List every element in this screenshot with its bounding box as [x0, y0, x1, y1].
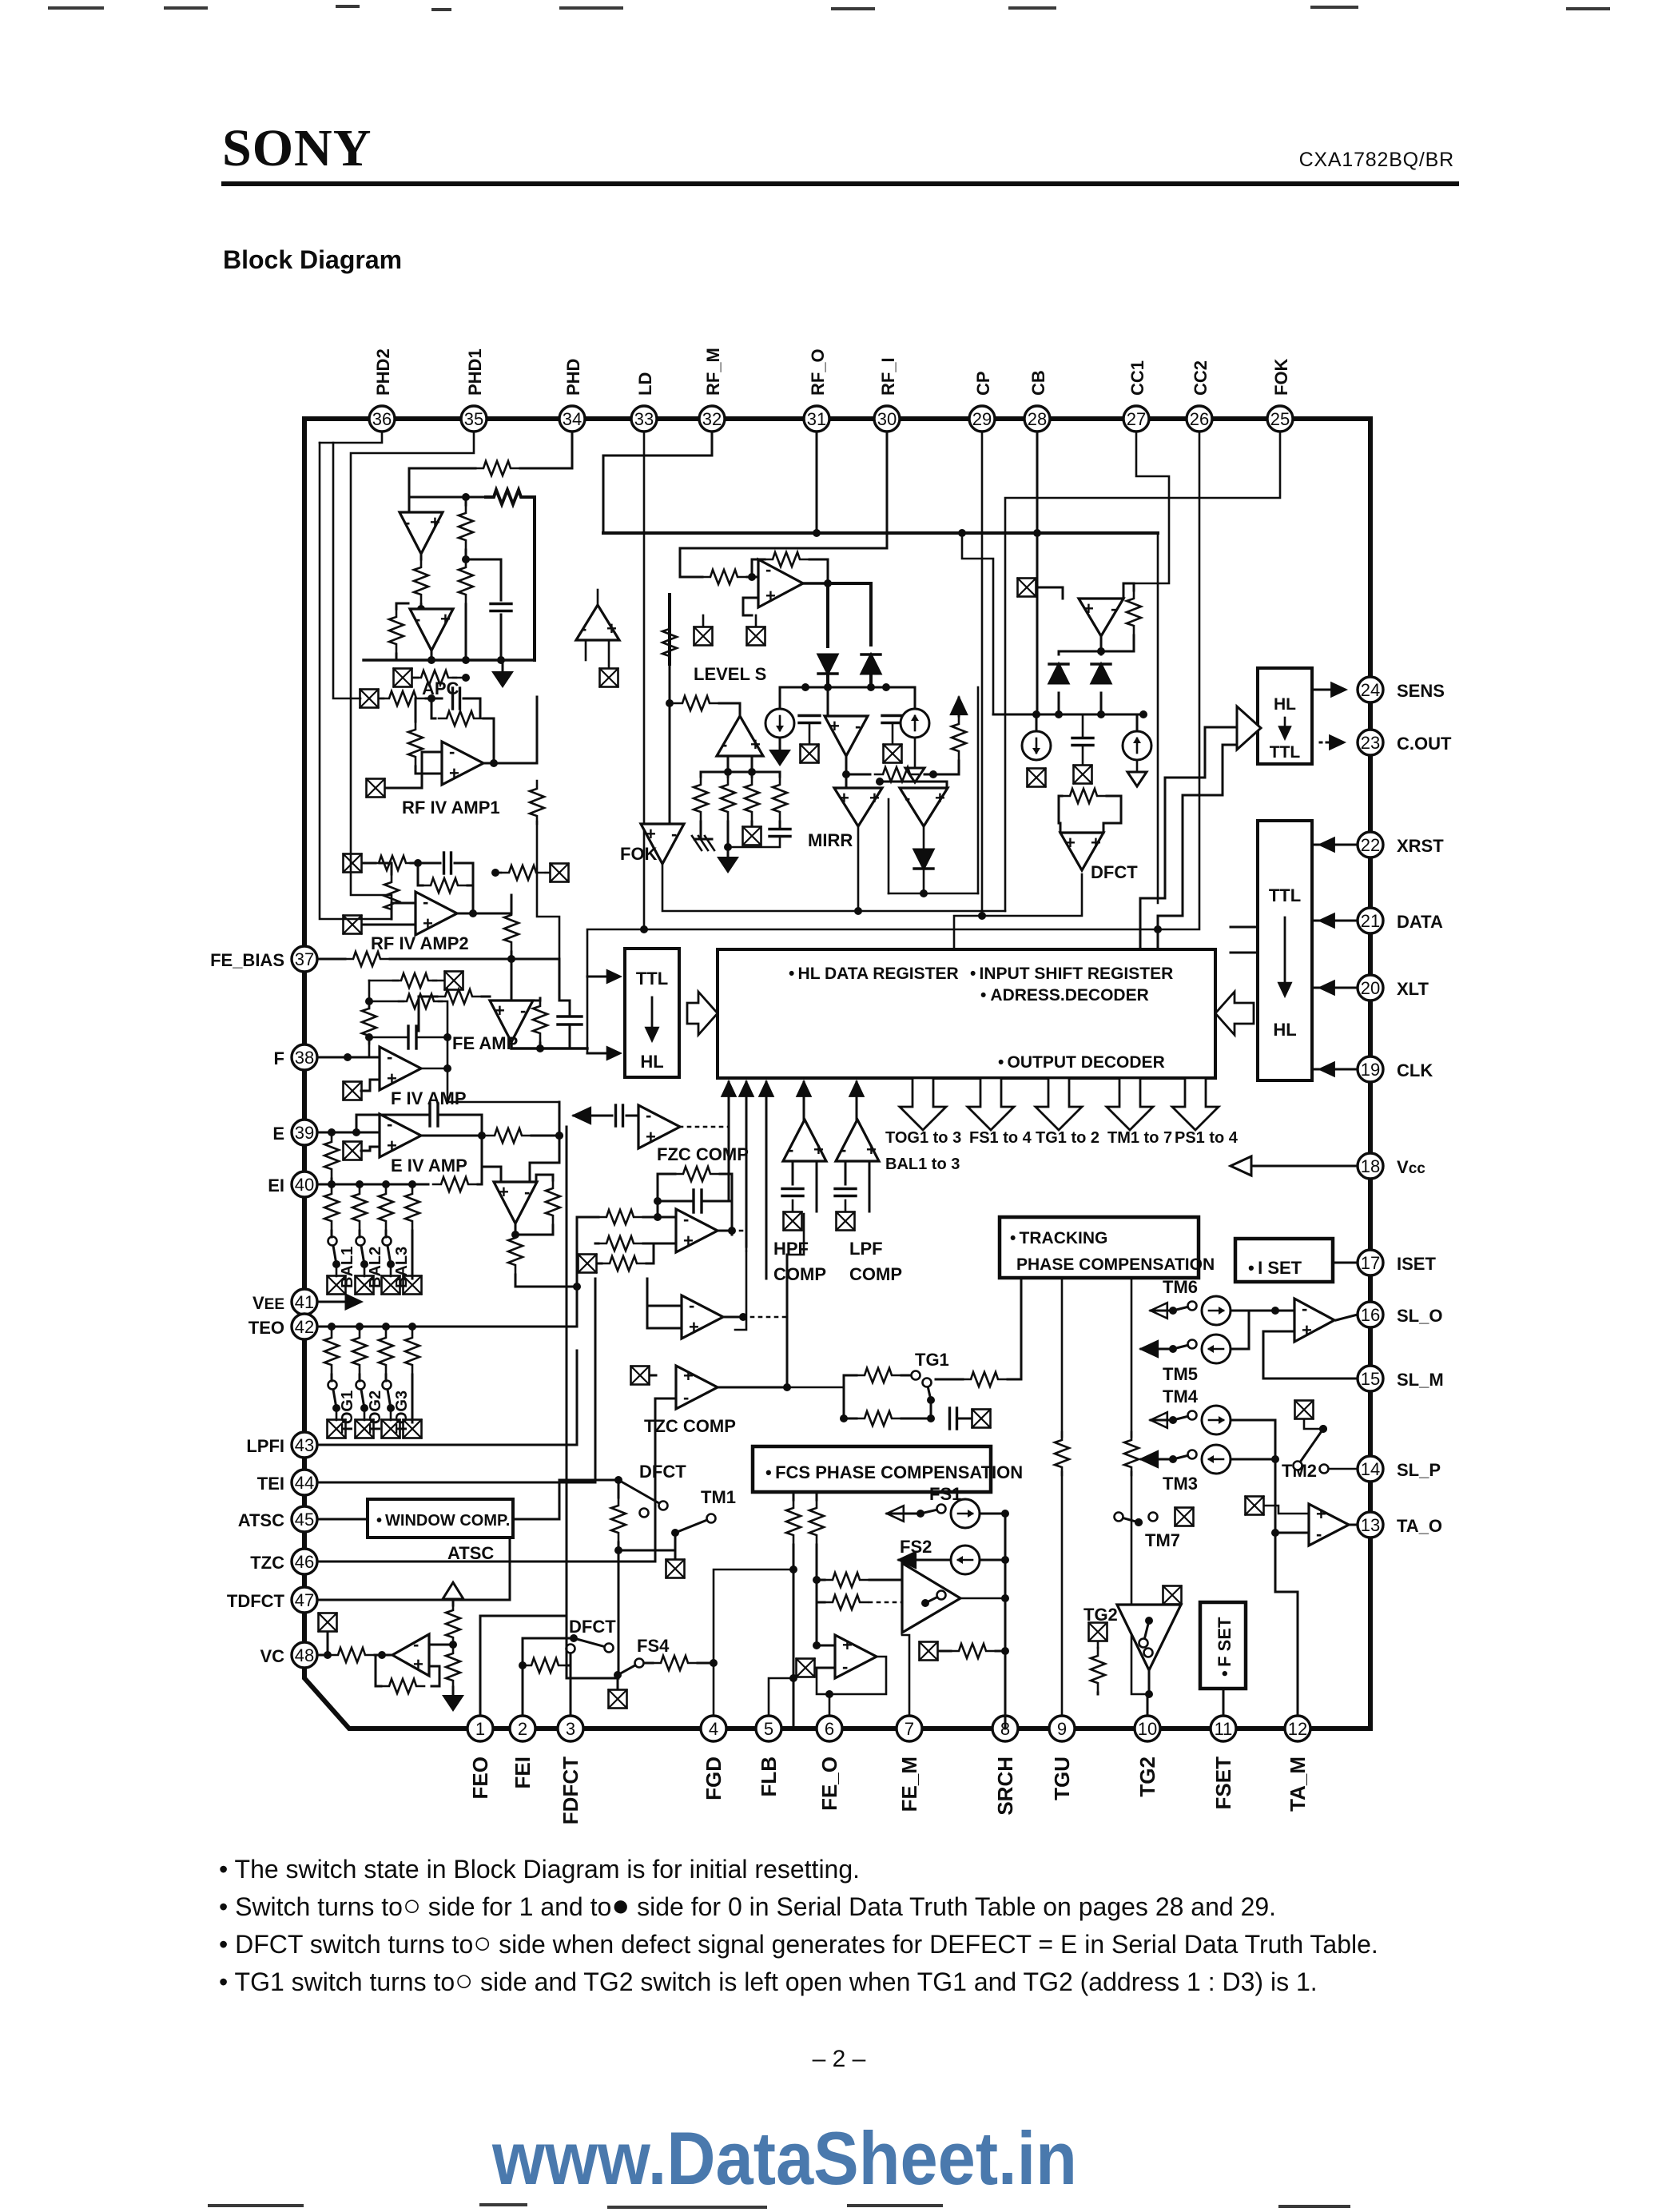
wire ta in [1275, 1532, 1309, 1534]
wire pin37 FE_BIAS [317, 958, 345, 961]
wire [597, 590, 599, 605]
switch TOG3 [383, 1381, 396, 1413]
resistor bank [694, 777, 708, 820]
test pad [319, 1613, 337, 1632]
wire [680, 576, 702, 579]
capacitor [835, 1189, 856, 1196]
svg-text:SONY: SONY [222, 119, 372, 177]
svg-text:TM5: TM5 [1163, 1364, 1198, 1384]
comparator TG2 triangle [1117, 1605, 1181, 1670]
svg-text:BAL1 to 3: BAL1 to 3 [885, 1156, 960, 1173]
control line into decoder [765, 1082, 768, 1279]
svg-text:-: - [855, 716, 861, 736]
op-amp TA driver [1309, 1504, 1349, 1546]
svg-text:28: 28 [1028, 409, 1047, 429]
svg-text:+: + [683, 1366, 694, 1386]
wire FS2 out [960, 1597, 1005, 1600]
svg-text:42: 42 [295, 1317, 314, 1337]
svg-text:VC: VC [260, 1646, 284, 1666]
svg-text:www.DataSheet.in: www.DataSheet.in [491, 2116, 1077, 2200]
wire trk left [1020, 1278, 1023, 1379]
wire [465, 497, 467, 505]
wire [809, 723, 811, 743]
wire pin48 [317, 1654, 330, 1657]
svg-text:-: - [581, 619, 586, 639]
wire pin14 TM2 [1330, 1468, 1358, 1470]
svg-text:FS2: FS2 [900, 1537, 932, 1557]
svg-text:RF_M: RF_M [703, 348, 723, 396]
svg-text:33: 33 [634, 409, 654, 429]
test pad [837, 1212, 855, 1231]
wire [511, 959, 513, 1001]
wire pin42 TEO [317, 1326, 428, 1328]
test pad [394, 669, 412, 687]
wire [647, 1305, 682, 1307]
wire DFCT out [954, 874, 1082, 949]
Vcc symbol [443, 1582, 463, 1599]
op-amp FE AMP [490, 1001, 533, 1042]
switch FS4 [614, 1659, 644, 1680]
wire FE AMP out [511, 1042, 587, 1048]
svg-text:-: - [646, 1105, 651, 1125]
resistor [413, 670, 456, 685]
switch TOG2 [356, 1381, 369, 1413]
svg-text:-: - [683, 1387, 689, 1407]
resistor [533, 998, 547, 1041]
wire [411, 862, 418, 865]
op-amp MIRR comparator [825, 716, 868, 756]
pin 11 (FSET) [1211, 1716, 1236, 1741]
diode [1091, 664, 1111, 683]
main bus [603, 531, 1158, 535]
pin 6 (FE_O) [817, 1716, 842, 1741]
wire TEO to TE AMP [428, 1276, 577, 1327]
svg-text:– 2 –: – 2 – [813, 2046, 866, 2072]
svg-text:SL_P: SL_P [1397, 1460, 1441, 1480]
test pad [344, 1142, 362, 1160]
svg-text:48: 48 [295, 1645, 314, 1665]
wire [1100, 651, 1103, 654]
wire [539, 998, 542, 1001]
resistor [486, 490, 529, 504]
svg-text:TG1: TG1 [915, 1350, 949, 1370]
test pad [360, 690, 379, 708]
wire [452, 1644, 455, 1647]
control line into decoder [746, 1082, 748, 1247]
wire pin32 drop [603, 432, 712, 533]
wire [1151, 1310, 1168, 1312]
svg-text:XLT: XLT [1397, 979, 1429, 999]
wire [1157, 533, 1159, 903]
svg-text:3: 3 [566, 1719, 575, 1739]
pin 25 (FOK) [1267, 406, 1293, 432]
wire F out [421, 1068, 447, 1070]
capacitor [694, 1190, 702, 1212]
svg-text:44: 44 [295, 1473, 314, 1493]
U11 side stubs [1231, 926, 1258, 929]
wire fb [429, 1666, 439, 1686]
capacitor [769, 829, 790, 837]
svg-text:E IV AMP: E IV AMP [391, 1156, 467, 1176]
svg-text:+: + [869, 788, 880, 808]
resistor [875, 767, 918, 782]
resistor [1055, 1432, 1069, 1475]
resistor TG1b [857, 1411, 900, 1426]
test pad [1295, 1401, 1314, 1419]
svg-text:+: + [646, 1127, 656, 1147]
wire [426, 698, 442, 700]
svg-text:37: 37 [295, 949, 314, 969]
svg-text:40: 40 [295, 1175, 314, 1195]
wire [327, 1632, 329, 1655]
svg-text:HL: HL [1273, 1020, 1296, 1040]
wire [933, 761, 959, 774]
pin 4 (FGD) [701, 1716, 726, 1741]
wire [1036, 714, 1038, 731]
wire legs [792, 1161, 794, 1184]
wire [1058, 693, 1060, 714]
wire [650, 1375, 656, 1377]
resistor feedback [439, 711, 482, 726]
pin 26 (CC2) [1187, 406, 1212, 432]
capacitor F [408, 1026, 416, 1048]
wire [478, 1160, 482, 1184]
wire [420, 554, 423, 559]
resistor [702, 570, 746, 584]
pin 39 (E) [292, 1120, 317, 1145]
resistor [602, 1256, 645, 1271]
wire loop [658, 1174, 675, 1215]
control line into decoder [856, 1082, 858, 1124]
resistor TE fb [546, 1180, 560, 1223]
pin 45 (ATSC) [292, 1506, 317, 1532]
test pad [609, 1690, 627, 1709]
wire [644, 1662, 653, 1665]
wire pin21 DATA into U11 [1312, 920, 1358, 922]
svg-text:30: 30 [877, 409, 897, 429]
pin 23 (C.OUT) [1358, 730, 1383, 755]
svg-text:-: - [1302, 1299, 1307, 1319]
svg-text:CLK: CLK [1397, 1060, 1433, 1080]
svg-text:5: 5 [764, 1719, 773, 1739]
wire [392, 903, 415, 919]
wire [962, 533, 993, 714]
svg-text:PHASE COMPENSATION: PHASE COMPENSATION [1016, 1255, 1215, 1274]
wire [1231, 1419, 1275, 1422]
op-amp A2 [410, 609, 453, 650]
bus arrow U9 to U10 [687, 992, 718, 1035]
svg-text:RF IV AMP2: RF IV AMP2 [371, 933, 469, 953]
svg-text:FE_O: FE_O [817, 1756, 841, 1811]
svg-text:26: 26 [1190, 409, 1209, 429]
wire pin1 column [480, 1616, 567, 1716]
svg-text:+: + [387, 1068, 397, 1088]
wire [857, 828, 860, 911]
current source [901, 709, 929, 738]
wire pin27 drop [1123, 432, 1169, 599]
svg-text:+: + [440, 609, 451, 629]
current source [1202, 1406, 1231, 1434]
wire pin39 E [317, 1132, 380, 1134]
diode [1049, 664, 1068, 683]
svg-text:PHD: PHD [563, 359, 583, 396]
wire [536, 1175, 553, 1182]
current source FS2 [951, 1546, 980, 1574]
wire legs [727, 756, 730, 772]
svg-text:27: 27 [1127, 409, 1146, 429]
svg-text:• HL DATA REGISTER: • HL DATA REGISTER [789, 965, 959, 983]
svg-text:FSET: FSET [1211, 1756, 1235, 1810]
wire [1097, 1693, 1099, 1694]
wire [669, 703, 671, 824]
svg-text:22: 22 [1361, 835, 1380, 855]
arrow stub [587, 1052, 614, 1055]
svg-text:FS4: FS4 [637, 1636, 670, 1656]
capacitor [782, 1189, 803, 1196]
wire [368, 1037, 371, 1057]
block F SET [1200, 1602, 1246, 1689]
wire [747, 576, 758, 579]
op-amp laser monitor [576, 605, 619, 640]
wire [531, 497, 535, 660]
resistor [508, 1230, 523, 1273]
wire [452, 1687, 455, 1695]
wire [1151, 1419, 1168, 1422]
svg-text:+: + [842, 1635, 853, 1655]
svg-text:10: 10 [1138, 1719, 1157, 1739]
svg-text:+: + [765, 586, 776, 606]
svg-text:4: 4 [709, 1719, 718, 1739]
svg-text:43: 43 [295, 1435, 314, 1455]
svg-text:FOK: FOK [620, 844, 658, 864]
pin 35 (PHD1) [461, 406, 487, 432]
svg-text:TM7: TM7 [1145, 1530, 1180, 1550]
pin 44 (TEI) [292, 1470, 317, 1495]
current source [1022, 731, 1051, 760]
wire pin7 column [902, 1635, 909, 1716]
svg-text:+: + [750, 734, 761, 754]
test pad [631, 1367, 650, 1385]
svg-text:11: 11 [1215, 1719, 1233, 1739]
wire [1141, 1458, 1168, 1461]
capacitor [430, 1104, 438, 1126]
svg-text:6: 6 [825, 1719, 834, 1739]
svg-text:1: 1 [475, 1719, 485, 1739]
svg-text:• TG1 switch turns to○ side a: • TG1 switch turns to○ side and TG2 swit… [219, 1964, 1318, 1998]
decoder output bus PS1 to 4 [1172, 1078, 1219, 1130]
wire pin29 drop [981, 432, 984, 916]
test pad [344, 1082, 362, 1100]
resistor [825, 1595, 868, 1609]
resistor [433, 1177, 476, 1192]
mute arrow [574, 1108, 590, 1124]
capacitor [491, 604, 511, 611]
wire [980, 1559, 1005, 1562]
pin 19 (CLK) [1358, 1056, 1383, 1082]
wire [452, 1599, 455, 1605]
switch TM4 [1169, 1411, 1197, 1425]
svg-text:13: 13 [1361, 1515, 1380, 1535]
svg-text:PHD2: PHD2 [373, 348, 393, 396]
resistor [786, 1500, 801, 1543]
svg-text:39: 39 [295, 1123, 314, 1143]
wire E out [421, 1135, 482, 1137]
wire [845, 774, 848, 788]
svg-text:38: 38 [295, 1048, 314, 1068]
svg-text:• ADRESS.DECODER: • ADRESS.DECODER [980, 986, 1149, 1005]
resistor [362, 1001, 376, 1044]
wire [380, 863, 392, 874]
pin 14 (SL_P) [1358, 1456, 1383, 1482]
svg-text:-: - [387, 1047, 392, 1067]
svg-text:+: + [1083, 599, 1094, 619]
wire [1059, 796, 1060, 833]
pin 18 (V<tspan font-size="19">cc</tspan>) [1358, 1153, 1383, 1179]
svg-text:+: + [1316, 1504, 1326, 1524]
switch TM6 [1169, 1302, 1197, 1315]
ground arrow [442, 1695, 464, 1712]
wire [511, 895, 513, 907]
wire [567, 1550, 618, 1678]
pin 41 (V<tspan font-size="19">EE</tspan>) [292, 1289, 317, 1315]
mute arrow [1141, 1341, 1158, 1357]
wire pin4 column [714, 1569, 793, 1716]
wire FSET box to pin11 [1223, 1689, 1225, 1716]
svg-text:COMP: COMP [773, 1264, 826, 1284]
op-amp TE AMP [494, 1182, 537, 1223]
resistor [324, 1134, 339, 1177]
current source [765, 709, 794, 738]
wire [419, 997, 437, 1031]
svg-text:FZC COMP: FZC COMP [657, 1144, 749, 1164]
wire legs [845, 1161, 847, 1184]
svg-text:LPFI: LPFI [246, 1436, 284, 1456]
svg-text:• F SET: • F SET [1215, 1617, 1235, 1677]
capacitor [616, 1105, 623, 1126]
block TRACKING PHASE COMPENSATION [1000, 1217, 1199, 1278]
wire [577, 1216, 598, 1219]
wire [817, 1558, 835, 1645]
test pad [445, 972, 463, 990]
Vcc distribution arrow at pin18 [1251, 1165, 1358, 1168]
svg-text:ATSC: ATSC [447, 1543, 494, 1563]
svg-text:TDFCT: TDFCT [227, 1591, 285, 1611]
switch BAL1 [328, 1237, 341, 1269]
svg-text:SL_M: SL_M [1397, 1370, 1444, 1390]
wire [375, 1654, 393, 1657]
wire [646, 1243, 654, 1263]
wire [936, 1379, 963, 1381]
pin 32 (RF_M) [699, 406, 725, 432]
pin 36 (PHD2) [369, 406, 395, 432]
resistor [384, 874, 399, 917]
pin 5 (FLB) [756, 1716, 781, 1741]
diode [861, 654, 881, 674]
wire TTL feed [643, 432, 646, 929]
wire [418, 862, 440, 865]
svg-text:DFCT: DFCT [569, 1617, 616, 1637]
svg-text:+: + [413, 1654, 423, 1674]
test pad [747, 627, 765, 646]
TOG ladder resistors [324, 1330, 339, 1373]
wire out13 [1350, 1524, 1358, 1526]
test pad [972, 1410, 991, 1428]
svg-text:-: - [404, 512, 410, 532]
wire pin5 column [769, 1678, 793, 1716]
svg-text:FOK: FOK [1271, 358, 1291, 396]
wire [732, 1231, 746, 1251]
svg-text:TZC COMP: TZC COMP [644, 1416, 736, 1436]
svg-text:FE AMP: FE AMP [452, 1033, 518, 1053]
wire [923, 828, 925, 849]
comparator FS2 triangle [902, 1563, 960, 1633]
wire [1274, 1459, 1277, 1533]
open triangle down [905, 768, 924, 782]
svg-text:SENS: SENS [1397, 681, 1445, 701]
svg-text:TA_M: TA_M [1286, 1756, 1310, 1812]
svg-text:Vcc: Vcc [1397, 1157, 1425, 1177]
op-amp MIRR B [900, 788, 948, 826]
wire [361, 1147, 380, 1151]
switch TM2 [1294, 1425, 1328, 1470]
wire [1103, 796, 1121, 833]
svg-text:TTL: TTL [1270, 743, 1301, 762]
wire [780, 687, 805, 709]
resistor [653, 1656, 696, 1670]
wire out [723, 1316, 743, 1319]
wire [843, 1375, 845, 1418]
test pad [884, 745, 902, 763]
decoder output bus TM1 to 7 [1107, 1078, 1153, 1130]
svg-text:ISET: ISET [1397, 1254, 1436, 1274]
current source [1202, 1335, 1231, 1363]
svg-text:9: 9 [1057, 1719, 1067, 1739]
wire [537, 822, 559, 1001]
wire [924, 774, 933, 776]
wire pin15 feed [1263, 1331, 1358, 1379]
svg-text:-: - [413, 1634, 419, 1654]
wire pin26 drop [1158, 432, 1199, 929]
pin 29 (CP) [969, 406, 995, 432]
op-amp comparator [682, 1295, 723, 1339]
wire [597, 1263, 602, 1265]
wire [531, 1135, 559, 1137]
pin 1 (FEO) [467, 1716, 493, 1741]
wire [887, 1513, 916, 1515]
test pad [666, 1560, 685, 1578]
op-amp defect mute [638, 1105, 680, 1148]
pin 10 (TG2) [1135, 1716, 1160, 1741]
test pad [1163, 1586, 1182, 1605]
switch TG1 [923, 1379, 936, 1405]
wire to op16 [1275, 1310, 1294, 1312]
wire pin20 XLT into U11 [1312, 987, 1358, 989]
resistor [459, 505, 473, 548]
svg-text:TTL: TTL [1269, 885, 1301, 905]
resistor [475, 461, 519, 475]
op-amp E IV AMP [380, 1114, 421, 1157]
op-amp A1 [400, 512, 443, 554]
pin 33 (LD) [631, 406, 657, 432]
svg-text:TOG1 to 3: TOG1 to 3 [885, 1129, 961, 1147]
wire [815, 1667, 835, 1669]
test pads BAL [328, 1276, 346, 1295]
test pad [694, 627, 713, 646]
svg-text:-: - [722, 734, 727, 754]
wire [793, 1492, 795, 1500]
resistor TG1c [963, 1372, 1006, 1386]
svg-text:TOG3: TOG3 [393, 1390, 411, 1434]
